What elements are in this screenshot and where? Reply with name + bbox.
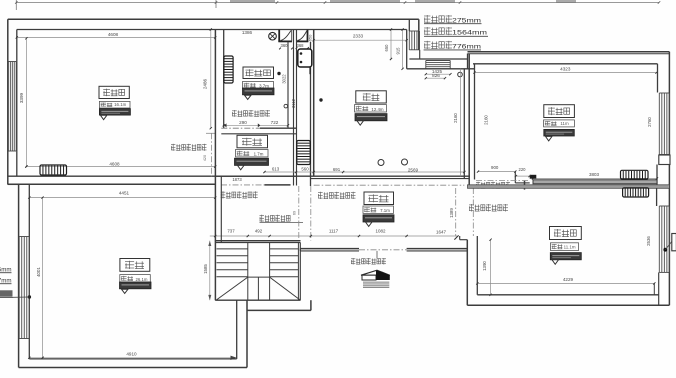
bedroom2 inner north wall [473,63,658,65]
svg-text:4229: 4229 [563,277,574,282]
stair right wall inner line [297,243,299,301]
corridor room label (走廊) [237,135,268,148]
foyer east passage dash lines [455,188,457,236]
svg-text:915: 915 [395,47,400,55]
svg-text:776mm: 776mm [452,43,481,50]
room label living room (客厅) [120,259,150,272]
svg-text:1082: 1082 [375,229,386,234]
svg-text:3112: 3112 [291,98,296,108]
bedroom1 left dim 3399 [25,38,27,166]
top overall dimension line [16,2,659,4]
svg-text:1873: 1873 [232,177,242,182]
west outer wall bedroom1 [7,19,9,184]
svg-text:3399: 3399 [19,92,24,103]
kitchen niche window horizontal [425,61,427,69]
top dimension digit smudges [230,0,275,3]
stair treads right flight [270,248,299,250]
entrance door text 门洞高2232mm [351,258,386,265]
svg-text:7.1m: 7.1m [380,208,390,213]
kitchen top dim 2333 [314,39,407,41]
room label bedroom1 (卧室一) [99,86,129,98]
svg-text:26.1m: 26.1m [136,277,148,282]
svg-text:4608: 4608 [108,32,119,37]
bathroom bottom wall and dims 290 722 [224,124,288,126]
stair landing diagonals [217,277,248,300]
svg-text:360: 360 [281,43,289,48]
stair middle column [247,243,249,301]
svg-text:737: 737 [227,229,235,234]
bedroom2 east wall and window [668,52,670,305]
svg-text:492: 492 [255,229,263,234]
door text 门洞高2345mm [469,204,508,212]
svg-text:560: 560 [301,166,309,171]
bedroom1 door dash line and text 门洞高2134mm [210,133,212,176]
svg-text:2486: 2486 [203,78,208,89]
north inner wall [17,29,407,31]
kitchen door hinge dot [319,98,322,101]
bedroom3 east window [656,188,658,206]
radiator bathroom [224,56,233,83]
beam text 梁高2439mm [260,215,291,222]
corridor bottom dims 613 560 691 2569 [265,171,465,173]
room label kitchen (厨房) [356,91,387,103]
svg-text:1647: 1647 [436,229,447,234]
svg-text:1564mm: 1564mm [452,30,487,37]
svg-text:826: 826 [432,73,440,78]
svg-text:2160: 2160 [484,115,489,125]
column circle [458,72,463,77]
svg-text:420: 420 [203,155,207,161]
svg-text:4608: 4608 [109,161,120,166]
niche bottom edge [407,68,475,70]
living room top dim 4451 [29,197,215,199]
wall pier at bedroom2 door [530,175,537,179]
radiator duct [297,141,310,165]
north outer wall [8,18,419,20]
bedroom1 bottom dim 4608 [26,166,215,168]
svg-text:900: 900 [491,165,499,170]
svg-text:2536: 2536 [646,236,651,246]
entrance hatch steps [363,282,389,283]
bedroom2 outer north wall [468,51,670,53]
corridor opening dash 1873 [221,184,265,186]
door text 门洞高2379mm [221,191,258,198]
svg-text:2333: 2333 [353,34,364,39]
kitchen east dim 2160 vertical [460,69,462,176]
svg-text:1117: 1117 [329,229,339,234]
passage dash lines to stairs [298,186,300,241]
niche dims 1425 826 [426,73,451,75]
kitchen east wall [463,69,465,179]
below-stairs walls [236,300,238,359]
svg-text:16.1m: 16.1m [114,102,127,107]
exhaust fan bathroom [269,32,277,40]
svg-text:12.4m: 12.4m [371,107,384,112]
bathroom door text 门洞高2000mm [232,110,270,117]
corridor bottom wall [215,175,296,177]
window annotation text 窗体上梁275mm [424,15,452,23]
bathroom floor drain circle [284,104,288,108]
door text 门洞高2142mm [318,192,356,199]
bedroom2 top dim 4323 [475,72,657,74]
bedroom2 bottom dim 3803 [533,177,657,179]
bedroom1 right dim 2486 [210,30,212,129]
svg-text:3803: 3803 [589,172,600,177]
living room bottom dim 4910 [29,357,236,359]
kitchen niche window vertical [409,30,419,32]
entrance canopy icon [361,270,390,275]
svg-text:1386: 1386 [242,30,253,35]
foyer room label (门厅) [364,192,394,205]
svg-text:613: 613 [272,166,280,171]
bedroom3 west wall [466,240,468,306]
svg-text:1.7m: 1.7m [254,152,264,157]
stair treads left flight [217,248,248,250]
kitchen bottom wall [311,178,470,180]
stair dim 1585 vertical [209,241,211,301]
bathroom west wall [214,30,216,301]
svg-text:4323: 4323 [560,66,571,71]
living room west dim 4001 [42,198,44,358]
kitchen stove circles [378,160,384,166]
living room west wall [18,185,20,368]
flue shaft 1 [278,30,280,42]
svg-text:4451: 4451 [119,191,130,196]
room label bedroom3 (卧室三) [550,227,582,240]
kitchen bottom dim 2569 line [314,184,465,186]
svg-text:11m: 11m [560,121,569,126]
bedroom3 north wall gray band [468,185,670,189]
svg-text:4001: 4001 [36,267,41,277]
svg-text:650: 650 [384,44,389,52]
bedroom3 west dim 1390 [490,240,492,295]
foyer south wall with entrance opening [301,248,360,250]
water heater [298,49,312,67]
bathroom-kitchen duct walls [287,42,289,128]
window annotation text 窗台距地776mm [424,41,452,49]
svg-text:69: 69 [293,211,297,215]
leader dot on west wall [28,295,31,298]
svg-text:1390: 1390 [482,261,487,271]
svg-text:2760: 2760 [647,117,652,127]
bedroom2 bottom wall [533,180,657,184]
svg-text:290: 290 [239,120,247,125]
window annotation text 窗体净高1564mm [424,27,452,35]
radiator bedroom3 [623,188,649,197]
foyer dim line 737 492 1117 1082 1647 [210,235,457,237]
radiator bedroom2 [621,170,649,179]
radiator bedroom1 [40,165,67,175]
svg-text:4910: 4910 [126,351,137,356]
flue shaft 2 [307,30,309,42]
kitchen vertical dims 650 915 [390,30,392,60]
window control dot and side box [663,248,667,252]
svg-text:11.1m: 11.1m [564,245,576,250]
svg-text:650: 650 [308,34,313,41]
living room bottom wall [29,358,236,360]
staircase enclosure [215,240,301,242]
room label bathroom (卫生间) [243,67,274,79]
west inner wall bedroom1 [16,30,18,177]
svg-text:691: 691 [333,167,341,172]
bedroom1 top dim 4608 [17,36,215,38]
svg-text:2569: 2569 [408,167,419,172]
svg-text:3022: 3022 [281,74,286,84]
room label bedroom2 (卧室二) [544,105,575,118]
svg-text:1389: 1389 [449,208,454,218]
svg-text:2160: 2160 [453,113,458,123]
dot bathroom [277,72,280,75]
svg-text:220: 220 [519,167,527,172]
bedroom2 west wall [474,64,476,180]
bedroom3 bottom dim 4229 [477,282,654,284]
bedroom3 bottom wall [477,294,658,296]
svg-text:1585: 1585 [203,264,208,274]
bedroom2 door dims 900 220 [478,171,515,173]
bedroom1 bottom wall [8,175,470,177]
svg-text:722: 722 [271,120,279,125]
kitchen north niche walls [406,30,408,69]
living room west window [19,236,29,238]
svg-text:368: 368 [297,43,305,48]
bedroom2 door opening dash and text 门洞高2134mm [476,180,530,182]
window west wall bedroom1 [8,61,16,63]
